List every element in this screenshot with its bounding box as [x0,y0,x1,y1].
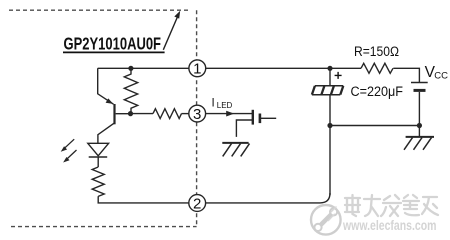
svg-text:3: 3 [193,106,201,123]
svg-text:C=220μF: C=220μF [351,84,404,99]
wire R3 to pin 3 [182,113,189,115]
junction node (capacitor tap on top rail) [327,66,332,71]
ground G2 (supply return) [404,137,434,150]
junction node (right ground net) [417,123,422,128]
label ILED [212,97,233,110]
transistor Q2 (external LED drive FET) [236,110,276,137]
Q1 emitter arrowhead [106,98,114,104]
LED D1 (IRED) [88,143,109,167]
wire ground rail [330,125,419,127]
capacitor C1 polarity + [335,72,342,79]
svg-text:GP2Y1010AU0F: GP2Y1010AU0F [64,34,162,54]
pin 2 [189,195,206,213]
wire top rail (pin 1 to resistor R) [206,67,361,69]
sensor enclosure dashed outline [9,10,197,226]
junction node (base / R1 bottom) [128,111,133,116]
ground G1 (under Q2) [222,143,249,157]
pin 3 [189,105,206,123]
resistor R2 (internal LED series) [92,167,104,196]
wire R to Vcc corner [393,68,419,82]
transistor Q1 (internal PNP) [98,68,131,143]
svg-text:1: 1 [193,61,201,78]
junction node (ground rail left) [327,123,332,128]
watermark text (stylized CJK strokes) [345,195,438,216]
svg-text:I: I [212,97,215,109]
pin 1 [189,60,206,78]
LED emission arrows [61,139,77,162]
wire cell to ground junction [418,92,420,137]
label Vcc [425,64,449,82]
wire capacitor top lead [329,68,331,85]
wire bottom rail (pin 2 to ground drop, rounded corner) [206,193,330,203]
capacitor C1 plates [312,86,343,95]
junction node (R1 top) [128,66,133,71]
wire pin 3 to Q2 drain [206,113,252,115]
resistor R=150 ohm [361,63,393,73]
ILED current arrowhead [226,111,234,117]
svg-text:R=150Ω: R=150Ω [354,44,399,59]
watermark logo [311,205,341,235]
resistor R3 (internal, to pin 3) [153,109,182,119]
resistor R1 (internal pull-up) [124,68,137,113]
svg-text:2: 2 [193,195,201,212]
wire capacitor bottom / ground drop [329,95,331,195]
svg-text:www.elecfans.com: www.elecfans.com [342,218,436,233]
leader arrow to enclosure [163,11,180,50]
label GP2Y1010AU0F [63,34,165,54]
wire top rail (emitter corner to pin 1) [98,67,189,69]
svg-text:LED: LED [217,101,233,110]
wire base node to R3 [131,113,153,115]
wire bottom-left (R2 to pin 2) [98,196,189,203]
svg-text:CC: CC [434,71,448,82]
supply cell (Vcc) plates [411,83,428,91]
